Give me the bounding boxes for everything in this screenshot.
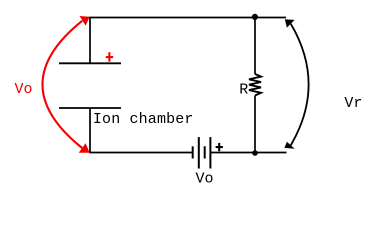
svg-text:Vr: Vr	[344, 95, 362, 112]
node junction dot top (top rail / resistor)	[252, 14, 258, 20]
battery V1 long plate (positive, inner left)	[198, 137, 200, 168]
wire right vertical upper (top node to resistor)	[254, 18, 256, 75]
battery V1 short plate (negative, inner right)	[204, 146, 206, 158]
arrowhead black top	[285, 19, 295, 27]
svg-text:R: R	[239, 81, 248, 98]
arrowhead black bottom	[284, 142, 294, 149]
svg-text:Vo: Vo	[15, 81, 33, 98]
battery V1 long plate (positive, outer right)	[209, 137, 211, 168]
wire top (node A: top rail from ion chamber to R and Vr probe)	[90, 18, 286, 64]
polarity label + (battery positive terminal)	[216, 143, 223, 151]
polarity label + (red) on top plate	[106, 52, 113, 61]
svg-text:Vo: Vo	[196, 170, 214, 187]
voltage arc Vo (red, across ion chamber)	[42, 21, 82, 148]
arrowhead red top	[80, 16, 90, 26]
arrowhead red bottom	[79, 143, 90, 153]
node junction dot bottom (bottom rail / resistor)	[252, 150, 258, 156]
resistor R zigzag body	[249, 74, 261, 96]
svg-text:Ion chamber: Ion chamber	[93, 111, 194, 128]
wire bottom-right (battery plus terminal to bottom node and Vr probe)	[210, 152, 286, 154]
wire bottom-left (from ion chamber bottom plate to battery minus terminal)	[90, 108, 192, 153]
voltage arc Vr (black, across resistor R)	[291, 24, 309, 146]
capacitor C1 ion chamber bottom plate	[59, 107, 121, 109]
capacitor C1 ion chamber top plate	[59, 62, 121, 64]
wire right vertical lower (resistor to bottom node)	[254, 96, 256, 153]
battery V1 short plate (negative, outer left)	[192, 146, 194, 158]
